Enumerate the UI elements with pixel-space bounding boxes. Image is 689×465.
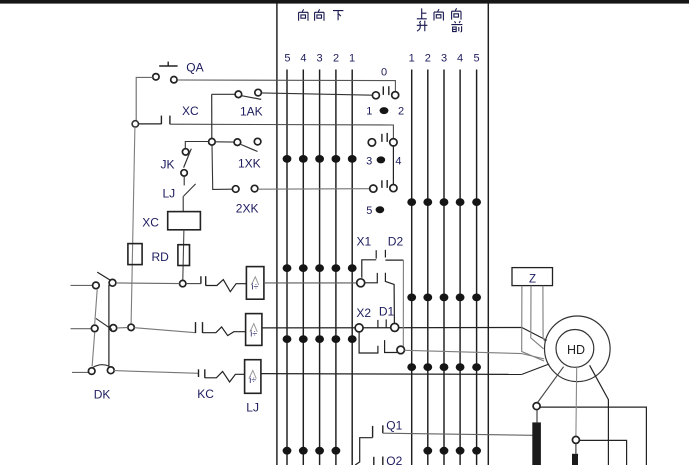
svg-text:XC: XC (142, 215, 159, 229)
thermal element C (205, 371, 245, 382)
controller switch 5 (366, 180, 397, 217)
下 (333, 11, 343, 21)
contact Q2 (374, 454, 403, 465)
svg-text:3: 3 (317, 52, 323, 64)
svg-text:3: 3 (441, 52, 447, 64)
svg-text:X2: X2 (356, 306, 371, 320)
svg-text:5: 5 (366, 205, 372, 217)
svg-text:4: 4 (457, 52, 463, 64)
brush resistor bar 1 (532, 422, 541, 465)
wire 3-4 switch down to 5 switch (392, 146, 394, 185)
wire DK C to KC C (114, 371, 199, 374)
wire node1 right and down (540, 407, 646, 465)
contact Q1 (355, 419, 402, 465)
wire DK A to KC A (116, 282, 180, 285)
node RD on phase B (128, 324, 134, 330)
wire QA to 0-switch (177, 80, 395, 92)
svg-text:2: 2 (398, 106, 404, 118)
svg-text:i÷: i÷ (250, 328, 257, 338)
wire XC contact to 3-4 switch (170, 124, 394, 139)
thermal element A (206, 280, 247, 292)
contactor KC main contact A (201, 276, 206, 285)
向 (434, 9, 443, 20)
wire node1 to brush 1 (536, 410, 538, 423)
svg-text:1: 1 (409, 52, 415, 64)
svg-text:3: 3 (366, 155, 372, 167)
contact D2 (385, 235, 403, 323)
svg-text:2XK: 2XK (236, 201, 259, 215)
wire node2 right and down (579, 440, 626, 465)
motor HD (545, 316, 611, 382)
svg-text:Z: Z (529, 273, 536, 285)
phase C supply stub (72, 371, 89, 373)
svg-text:4: 4 (395, 155, 401, 167)
svg-text:JK: JK (161, 158, 175, 172)
switch 2XK (232, 185, 258, 215)
svg-text:2: 2 (425, 52, 431, 64)
svg-text:5: 5 (474, 52, 480, 64)
svg-text:5: 5 (284, 52, 290, 64)
wire JK to LJ contact (183, 176, 185, 185)
向 (452, 8, 461, 19)
relay contact LJ (control) (163, 184, 196, 212)
overcurrent relay LJ coil B (246, 314, 262, 346)
controller frame right line (487, 3, 489, 465)
svg-text:0: 0 (381, 67, 387, 79)
column number labels (left group 5 4 3 2 1) (284, 52, 355, 64)
header label 上升 向 向前 (right group) (417, 8, 463, 32)
svg-text:D1: D1 (379, 305, 395, 319)
wire output node to motor (405, 350, 522, 353)
contactor KC main contact C (197, 369, 214, 401)
contact X1 (357, 235, 378, 287)
svg-text:1XK: 1XK (238, 156, 261, 170)
wire LJ A to X1 (264, 282, 357, 284)
contact dots row y=202 (right columns) (407, 198, 481, 206)
phase B supply stub (71, 328, 92, 330)
svg-text:RD: RD (152, 250, 170, 264)
svg-text:D2: D2 (388, 235, 404, 249)
contact dots row y=268 (left columns) (283, 264, 357, 272)
resistor RD (128, 127, 169, 324)
wire node2 to brush 2 (575, 443, 577, 453)
contact XC (in control wire) (139, 104, 200, 124)
svg-text:DK: DK (94, 388, 111, 402)
向 (315, 9, 324, 20)
wires Z to motor (522, 286, 545, 361)
前 (451, 21, 462, 32)
controller switch 0 (contacts 1-2) (366, 67, 404, 118)
svg-text:XC: XC (182, 104, 199, 118)
motor lead 3 (right) (590, 365, 609, 465)
wire XC coil to resistor (183, 230, 184, 281)
knife switch DK pole A (93, 272, 116, 289)
junction node (JK/1XK/2XK) (209, 139, 216, 146)
svg-text:1: 1 (349, 52, 355, 64)
svg-text:QA: QA (186, 61, 203, 75)
svg-text:4: 4 (300, 52, 306, 64)
motor lead 1 (left) (537, 367, 563, 403)
上 (417, 8, 427, 18)
overcurrent relay LJ coil C (245, 360, 261, 415)
wire 1AK to 0-switch (261, 93, 372, 95)
header label 向向下 (left group) (299, 9, 344, 20)
overcurrent relay LJ coil A (246, 267, 264, 300)
node on phase A (XC branch) (180, 280, 186, 286)
switch 1AK (212, 89, 263, 118)
column number labels (right group 1 2 3 4 5) (409, 52, 480, 64)
wire DK B to KC B (117, 327, 128, 329)
controller frame left line (276, 3, 278, 465)
svg-text:1AK: 1AK (240, 104, 263, 118)
thermal element B (203, 327, 246, 336)
resistor (right, under XC coil) (178, 245, 190, 266)
node lead2 (572, 436, 579, 443)
phase B wire across controller to motor (262, 327, 522, 329)
svg-text:LJ: LJ (163, 187, 176, 201)
relay contact JK (161, 142, 209, 177)
svg-text:Q2: Q2 (386, 454, 402, 465)
controller columns left group (287, 70, 352, 465)
svg-text:i÷: i÷ (249, 375, 256, 385)
向 (299, 9, 308, 20)
wire junction down to 2XK (212, 145, 232, 189)
svg-text:i÷: i÷ (252, 282, 259, 292)
phase C wire across controller to motor (261, 373, 522, 376)
contactor KC main contact B (196, 322, 203, 333)
switch 1XK (215, 138, 261, 170)
controller columns right group (412, 70, 477, 465)
wire D2 output down to D1 output node (401, 260, 404, 350)
node (QA/XC junction) (132, 121, 138, 127)
svg-text:LJ: LJ (246, 401, 259, 415)
contact dots row y=451 (left columns 5 4 3 2) (283, 447, 341, 455)
controller switch 3-4 (366, 133, 401, 168)
升 (417, 21, 428, 32)
svg-text:1: 1 (366, 106, 372, 118)
phase A supply stub (71, 284, 93, 286)
svg-text:X1: X1 (357, 235, 372, 249)
motor lead 2 (middle) (575, 367, 578, 436)
wire 2XK to 5-switch (258, 188, 370, 191)
contact dots row y=297 (right columns) (407, 294, 481, 302)
contact dots row y=339 (left columns) (283, 335, 357, 343)
svg-text:HD: HD (567, 343, 585, 357)
switch QA (153, 61, 204, 83)
contact dots row y=159 (left columns) (283, 155, 357, 163)
contact D1 (379, 305, 399, 353)
wire 1AK down to junction (211, 94, 213, 138)
contact X2 (355, 306, 378, 353)
coil XC (contactor coil) (142, 212, 200, 230)
contact dots row y=451 (right columns 2 3 4 5) (423, 447, 481, 455)
svg-text:KC: KC (197, 387, 214, 401)
knife switch DK pole C (88, 365, 114, 375)
knife switch DK pole B (91, 318, 116, 331)
brush resistor bar 2 (572, 454, 578, 465)
DK linkage bars (92, 285, 110, 402)
svg-text:2: 2 (333, 52, 339, 64)
node D1/D2 output (397, 346, 405, 354)
node lead1 (533, 403, 540, 410)
brake resistor Z (512, 268, 553, 286)
wire Q1 to brush resistor (383, 433, 533, 435)
svg-text:Q1: Q1 (386, 419, 402, 433)
contact dots row y=367 (right columns) (407, 363, 481, 371)
wire QA left to node (136, 77, 153, 121)
top edge line (0, 0, 689, 4)
